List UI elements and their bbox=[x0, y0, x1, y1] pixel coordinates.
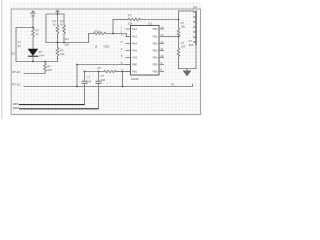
wire top-mid bbox=[46, 42, 89, 44]
svg-text:PB5: PB5 bbox=[153, 63, 158, 67]
resistor R3 bbox=[56, 47, 59, 59]
svg-text:AC: AC bbox=[11, 52, 15, 56]
svg-text:10k: 10k bbox=[128, 22, 133, 26]
resistor R6 bbox=[177, 28, 180, 38]
junction R8 bottom bbox=[57, 42, 59, 44]
wire pullup rail bbox=[46, 13, 64, 15]
svg-text:1N4: 1N4 bbox=[39, 53, 45, 57]
resistor R10 bbox=[177, 48, 180, 59]
svg-text:AC2: AC2 bbox=[13, 106, 19, 110]
svg-text:RB0: RB0 bbox=[132, 63, 138, 67]
VCC stub on rail bbox=[56, 10, 59, 14]
wire pin to ladder bbox=[164, 36, 179, 38]
capacitor C2 top bbox=[98, 72, 100, 81]
IC pin names bbox=[132, 27, 158, 74]
wire R3 down bbox=[57, 58, 59, 62]
junction cap row right bbox=[122, 71, 124, 73]
svg-text:220: 220 bbox=[47, 68, 52, 72]
wire pullup left bbox=[45, 14, 47, 43]
wire R4 to IC bbox=[106, 34, 131, 37]
junction ladder pin bbox=[178, 36, 180, 38]
svg-text:RA3: RA3 bbox=[132, 35, 138, 39]
wire gnd rail bbox=[179, 68, 197, 70]
wire R7 to IC bbox=[116, 71, 130, 73]
svg-text:IC1: IC1 bbox=[148, 22, 153, 26]
wire RT-02 long bbox=[24, 84, 193, 86]
connector JP1 pads bbox=[195, 11, 197, 46]
resistor R2 bbox=[44, 63, 47, 74]
capacitor C1 bottom bbox=[84, 84, 86, 105]
junction dots bbox=[32, 13, 179, 87]
wire node row bbox=[16, 61, 58, 63]
svg-text:R?: R? bbox=[128, 14, 132, 18]
junction node row corner bbox=[76, 64, 78, 66]
svg-text:RT-01: RT-01 bbox=[12, 70, 21, 74]
IC U1 body bbox=[131, 26, 160, 76]
svg-text:RT-02: RT-02 bbox=[12, 83, 21, 87]
AC net labels bbox=[13, 102, 19, 110]
VCC symbol bbox=[31, 11, 35, 16]
junction R2 top bbox=[44, 61, 46, 63]
resistor R7 bbox=[104, 70, 116, 72]
wire left down bbox=[15, 28, 17, 62]
svg-text:3A: 3A bbox=[18, 44, 22, 48]
svg-text:10k: 10k bbox=[65, 43, 70, 47]
resistor R5 bbox=[128, 18, 140, 20]
wire to R3 bbox=[57, 43, 59, 47]
junction C2 top bbox=[98, 71, 100, 73]
capacitor C2 plates bbox=[96, 81, 101, 83]
resistor R4 bbox=[94, 32, 106, 34]
svg-text:RB1: RB1 bbox=[132, 70, 138, 74]
wire VCC down bbox=[32, 16, 34, 28]
capacitor C1 plates bbox=[82, 81, 87, 83]
AC wire N bbox=[19, 108, 99, 110]
junction ladder top bbox=[178, 19, 180, 21]
svg-text:PB4: PB4 bbox=[153, 56, 158, 60]
wire mid row to IC pin6 bbox=[77, 64, 131, 66]
svg-text:VSS: VSS bbox=[132, 56, 137, 60]
wire cap row bbox=[85, 71, 105, 73]
wire ladder top bbox=[178, 11, 180, 28]
svg-text:1k?: 1k? bbox=[65, 37, 70, 41]
junction riser node bbox=[112, 33, 114, 35]
svg-text:104: 104 bbox=[101, 78, 106, 82]
wire down to R2 bbox=[44, 62, 46, 64]
wire riser to top bbox=[112, 20, 114, 34]
svg-text:PB2: PB2 bbox=[153, 42, 158, 46]
svg-text:104: 104 bbox=[181, 45, 186, 49]
svg-text:10k: 10k bbox=[60, 52, 65, 56]
svg-text:P.L: P.L bbox=[171, 82, 175, 86]
resistor R1 bbox=[32, 28, 35, 39]
wire down to RT-02 line bbox=[122, 72, 124, 87]
svg-text:PB0: PB0 bbox=[153, 27, 158, 31]
wire branch left bbox=[16, 27, 33, 29]
svg-text:R?1k: R?1k bbox=[95, 30, 102, 34]
resistor R9 bbox=[63, 14, 66, 43]
schematic frame bbox=[11, 9, 200, 115]
junction diode node bbox=[32, 61, 34, 63]
wire to connector top bbox=[179, 10, 194, 12]
svg-text:JP?: JP? bbox=[193, 5, 198, 9]
svg-text:RA2: RA2 bbox=[132, 27, 138, 31]
svg-text:PB1: PB1 bbox=[153, 35, 158, 39]
IC U1 left pin stubs 1-7 bbox=[126, 29, 131, 72]
svg-text:RA4: RA4 bbox=[132, 42, 138, 46]
junction on VCC rail bbox=[57, 13, 59, 15]
svg-text:10k: 10k bbox=[181, 25, 186, 29]
wire to R5 bbox=[113, 19, 128, 21]
junction C1 top bbox=[84, 71, 86, 73]
wire to R4 bbox=[89, 33, 94, 35]
diode D1 bbox=[28, 49, 38, 55]
wire D1 down bbox=[32, 57, 34, 62]
svg-text:104: 104 bbox=[189, 43, 194, 47]
window edge line bbox=[1, 0, 2, 119]
capacitor C2 bottom bbox=[98, 84, 100, 109]
wire ladder mid bbox=[178, 38, 180, 48]
IC U1 right pin stubs 8-14 bbox=[159, 29, 164, 72]
resistor R8 bbox=[56, 14, 59, 43]
wire mid vertical bbox=[76, 65, 78, 87]
svg-text:RA5: RA5 bbox=[132, 49, 138, 53]
junction RT-02 line bbox=[76, 86, 78, 88]
junction at R1 top branch bbox=[32, 27, 34, 29]
svg-text:PB6: PB6 bbox=[153, 70, 158, 74]
wire R10 down bbox=[178, 59, 180, 69]
svg-text:GM1: GM1 bbox=[104, 45, 111, 49]
wire riser bbox=[88, 34, 90, 43]
labels bbox=[11, 5, 197, 86]
svg-text:GM16: GM16 bbox=[131, 77, 139, 81]
junction RT-02 mid bbox=[122, 86, 124, 88]
diode D1 cathode bar bbox=[28, 55, 37, 57]
wire connector down bbox=[195, 45, 197, 69]
wire R1 to D1 bbox=[32, 39, 34, 50]
svg-text:PB3: PB3 bbox=[153, 49, 158, 53]
svg-text:104: 104 bbox=[87, 79, 92, 83]
capacitor C1 top bbox=[84, 72, 86, 81]
svg-text:R?: R? bbox=[98, 66, 102, 70]
IC pin numbers bbox=[121, 25, 164, 72]
ground symbol bbox=[186, 69, 188, 71]
AC wire L bbox=[19, 104, 85, 106]
wire R5 to ladder bbox=[140, 19, 178, 21]
junction R9 bottom bbox=[63, 42, 65, 44]
wire RT-01 bbox=[24, 73, 45, 75]
